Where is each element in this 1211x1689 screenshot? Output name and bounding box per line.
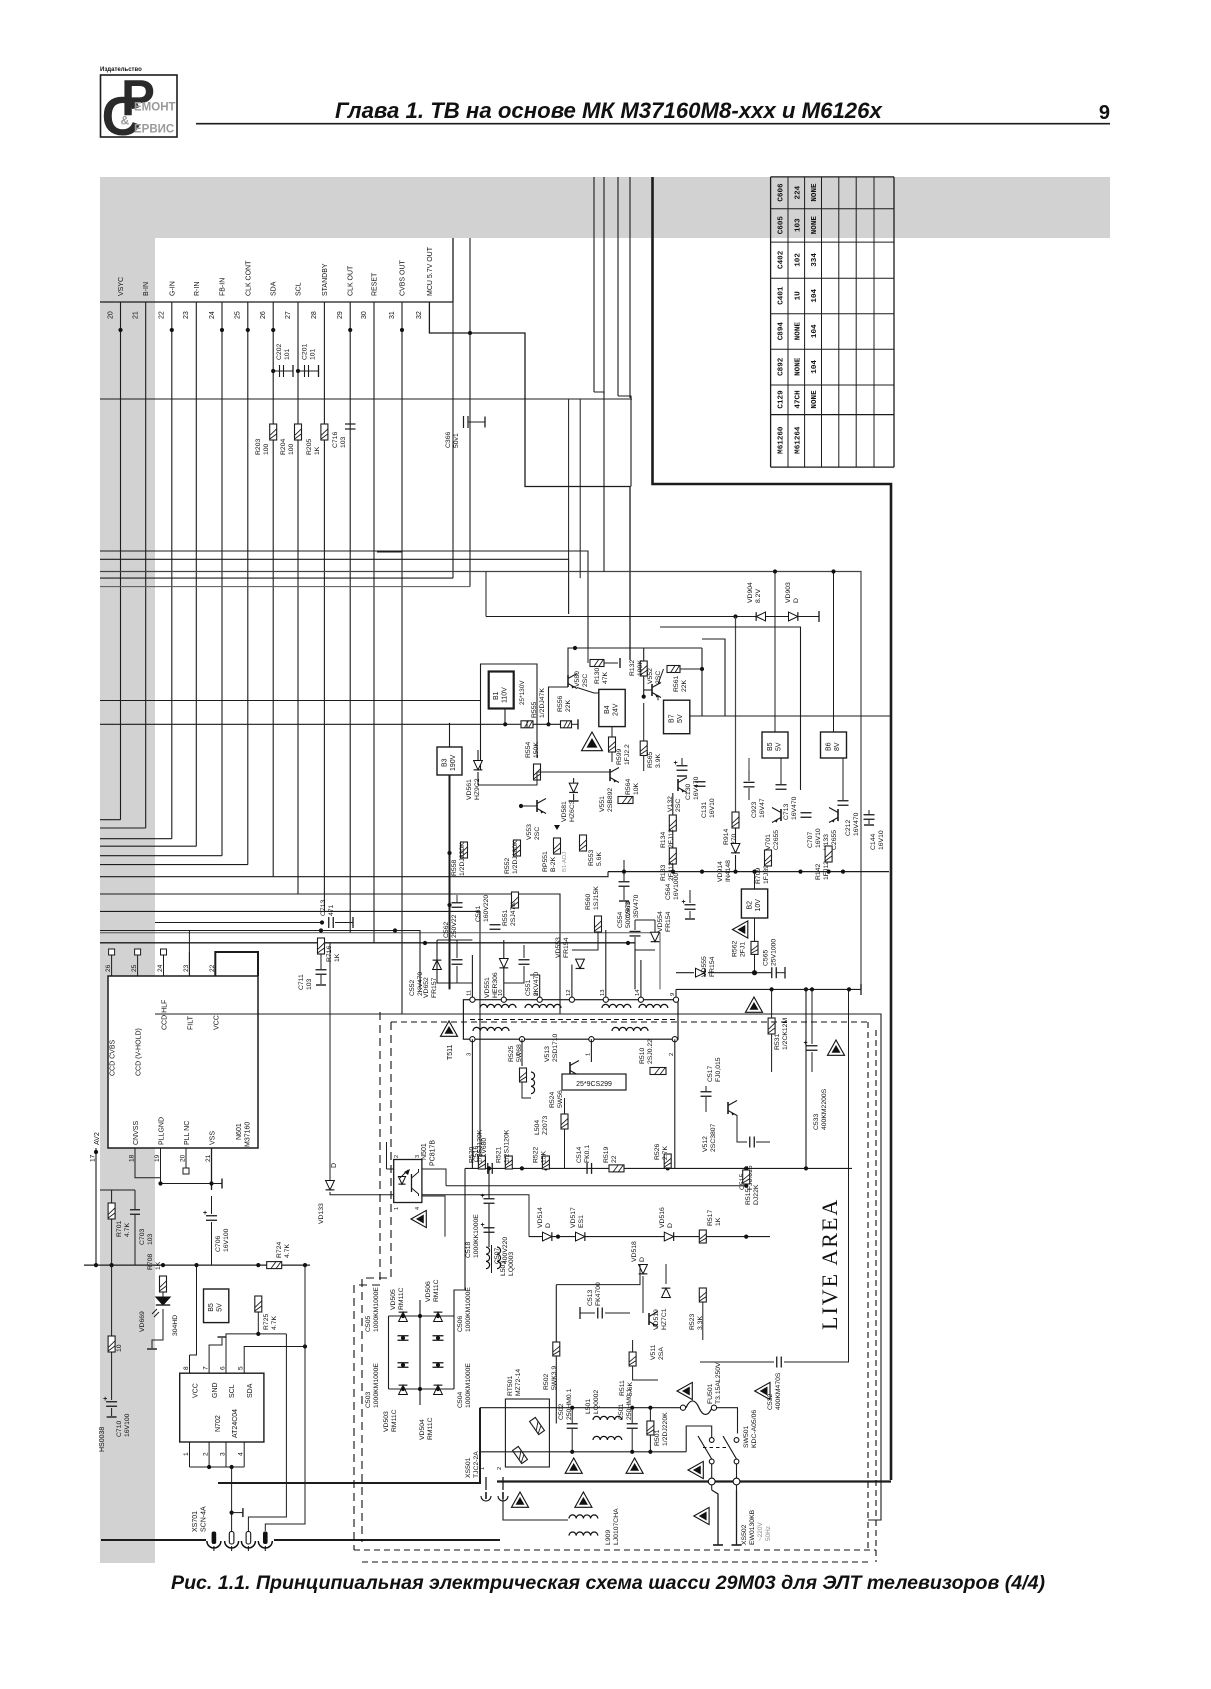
svg-text:PLL NC: PLL NC xyxy=(184,1121,191,1145)
svg-text:10V: 10V xyxy=(755,899,762,912)
wire vertical top bundle 1 xyxy=(593,177,595,392)
wire pin 29 xyxy=(349,302,351,933)
svg-text:R553: R553 xyxy=(588,850,595,866)
capacitor C713 471 xyxy=(328,917,330,928)
resistor R523 xyxy=(699,1288,706,1302)
capacitor C703 xyxy=(130,1209,140,1211)
wire bundle jogs xyxy=(594,392,604,460)
wire pin17 AV2 xyxy=(95,1148,97,1265)
svg-text:IN4148: IN4148 xyxy=(725,860,732,882)
svg-text:B1: B1 xyxy=(493,691,500,700)
svg-text:7: 7 xyxy=(203,1366,210,1370)
svg-text:C2655: C2655 xyxy=(773,830,780,850)
svg-text:V552: V552 xyxy=(647,668,654,684)
warning triangles mains xyxy=(565,1458,582,1473)
wire pin 27 xyxy=(297,302,299,894)
svg-text:R130: R130 xyxy=(594,668,601,684)
svg-text:4.7K: 4.7K xyxy=(284,1244,291,1258)
svg-text:AV2: AV2 xyxy=(94,1132,101,1145)
wire switch left pole feed xyxy=(686,1426,712,1452)
svg-text:VD581: VD581 xyxy=(561,801,568,822)
capacitor C710 xyxy=(106,1401,117,1403)
resistor R565 xyxy=(640,741,647,756)
wire VD904 rail xyxy=(486,616,819,618)
live area dashed boundary right xyxy=(867,1022,869,1550)
wire primary links xyxy=(556,1264,640,1285)
wire pin 21 to left edge xyxy=(100,827,146,829)
resistor R520 xyxy=(478,1156,485,1169)
IC N601 box xyxy=(108,976,258,1148)
svg-text:CLK OUT: CLK OUT xyxy=(348,265,355,296)
capacitor C551 xyxy=(519,959,530,961)
svg-text:18: 18 xyxy=(129,1154,136,1162)
svg-text:2SJ0.22: 2SJ0.22 xyxy=(647,1039,654,1064)
switch SW501 xyxy=(709,1438,714,1443)
transistor V552 xyxy=(651,684,653,696)
diode VD133 xyxy=(326,1181,335,1190)
svg-text:LQ0002: LQ0002 xyxy=(593,1390,600,1414)
wire C532 riser to secondary rail xyxy=(784,989,849,1362)
diode VD518 xyxy=(639,1265,648,1274)
svg-text:R520: R520 xyxy=(469,1147,476,1163)
svg-text:C518: C518 xyxy=(465,1242,472,1258)
svg-text:C565: C565 xyxy=(763,950,770,966)
svg-text:STANDBY: STANDBY xyxy=(322,263,329,296)
resistor R204 xyxy=(295,424,302,440)
svg-text:C504: C504 xyxy=(457,1392,464,1408)
resistor R526 xyxy=(664,1154,671,1168)
svg-text:27: 27 xyxy=(285,311,292,319)
svg-text:NONE: NONE xyxy=(794,357,802,376)
svg-text:R133: R133 xyxy=(660,865,667,881)
svg-text:C713: C713 xyxy=(783,804,790,820)
svg-text:FR154: FR154 xyxy=(665,911,672,932)
svg-text:CLK CONT: CLK CONT xyxy=(245,260,252,296)
svg-text:D: D xyxy=(545,1223,552,1228)
svg-text:R914: R914 xyxy=(723,829,730,845)
svg-text:8V: 8V xyxy=(834,742,841,751)
svg-text:VD133: VD133 xyxy=(318,1203,325,1224)
svg-text:R701: R701 xyxy=(116,1221,123,1237)
wire B6 feed from bus xyxy=(833,572,835,733)
wire N702 bottom gnd xyxy=(190,1466,245,1468)
wire x486 drop xyxy=(485,572,487,617)
wire rail corner down xyxy=(701,648,703,716)
svg-text:RM11C: RM11C xyxy=(427,1417,434,1440)
svg-text:16V100: 16V100 xyxy=(223,1228,230,1252)
resistor R708 xyxy=(160,1276,167,1292)
svg-text:+: + xyxy=(203,1210,207,1217)
wire y922 rail xyxy=(155,922,322,924)
svg-text:2SC: 2SC xyxy=(582,674,589,687)
diode VD516 xyxy=(664,1232,673,1241)
transistor V132 xyxy=(677,779,679,791)
IC region gray column left xyxy=(100,238,155,1563)
svg-text:28: 28 xyxy=(311,311,318,319)
voltage box B1 xyxy=(489,672,514,709)
diode VD551 xyxy=(499,959,508,968)
wire hot rail to bridge xyxy=(454,1168,465,1316)
svg-text:FK4700: FK4700 xyxy=(595,1282,602,1306)
wire vertical top bundle 3 xyxy=(617,177,619,396)
svg-text:R502: R502 xyxy=(543,1374,550,1390)
bottom rail upper cluster xyxy=(608,871,889,873)
svg-text:R725: R725 xyxy=(263,1314,270,1330)
wire pin 28 xyxy=(323,302,325,911)
resistor R515 xyxy=(743,1170,750,1184)
svg-text:2: 2 xyxy=(394,1155,400,1158)
IC N702 box xyxy=(180,1373,264,1442)
svg-text:C505: C505 xyxy=(365,1316,372,1332)
svg-text:2FJ1: 2FJ1 xyxy=(740,942,747,957)
svg-text:R205: R205 xyxy=(306,439,313,455)
wire drop x580 xyxy=(579,399,581,578)
svg-text:T511: T511 xyxy=(447,1044,454,1060)
resistor R724 xyxy=(267,1262,282,1269)
wire primary verticals xyxy=(471,1039,473,1168)
svg-text:SDA: SDA xyxy=(271,281,278,296)
wire bus y700 xyxy=(100,700,481,702)
capacitor C201 xyxy=(298,370,311,372)
wire pin 22 xyxy=(171,302,173,839)
capacitor C212 xyxy=(838,800,849,802)
svg-text:B7: B7 xyxy=(669,714,676,723)
svg-text:C402: C402 xyxy=(777,250,785,269)
svg-text:C129: C129 xyxy=(777,390,785,409)
svg-text:C554: C554 xyxy=(617,912,624,928)
wire y943 rail xyxy=(100,942,635,944)
svg-text:VD517: VD517 xyxy=(570,1207,577,1228)
wire CLK OUT bus horizontal xyxy=(100,933,660,990)
hybrid box 25*9CS299 xyxy=(562,1074,626,1090)
capacitor C514 xyxy=(586,1163,588,1174)
svg-text:V511: V511 xyxy=(650,1344,657,1360)
warning triangle fuse xyxy=(677,1382,692,1399)
svg-text:VD904: VD904 xyxy=(747,582,754,603)
svg-text:20: 20 xyxy=(107,311,114,319)
wire VD133 net xyxy=(329,943,331,1180)
svg-text:RP551: RP551 xyxy=(542,851,549,872)
resistor R558b xyxy=(461,842,468,858)
wire B1 feed riser xyxy=(481,664,538,770)
diode VD504 xyxy=(434,1385,443,1394)
svg-text:2SC: 2SC xyxy=(675,799,682,812)
resistor R556 xyxy=(561,721,572,728)
svg-text:100: 100 xyxy=(288,443,295,455)
resistor R501 xyxy=(647,1421,654,1435)
svg-text:D: D xyxy=(639,1257,646,1262)
svg-text:MCU 5.7V OUT: MCU 5.7V OUT xyxy=(427,246,434,296)
ground R556 xyxy=(572,723,579,725)
voltage box B3 xyxy=(437,747,462,775)
resistor R205 xyxy=(321,424,328,440)
resistor R555 xyxy=(521,721,533,728)
svg-text:C564: C564 xyxy=(665,884,672,900)
voltage box B5 low xyxy=(204,1289,229,1323)
svg-text:50Hz: 50Hz xyxy=(765,1526,772,1541)
svg-text:5V: 5V xyxy=(776,742,783,751)
svg-text:SCN-4A: SCN-4A xyxy=(201,1506,208,1532)
live area thin solid wire xyxy=(155,1013,881,1015)
svg-text:HZ7C1: HZ7C1 xyxy=(661,1308,668,1330)
svg-text:C711: C711 xyxy=(298,974,305,990)
IC region gray band top xyxy=(100,177,1110,238)
svg-text:3: 3 xyxy=(220,1452,227,1456)
svg-text:VD505: VD505 xyxy=(390,1289,397,1310)
diode VD506 xyxy=(434,1312,443,1321)
svg-text:~220V: ~220V xyxy=(757,1522,764,1541)
resistor R511 xyxy=(629,1352,636,1366)
capacitor C502 xyxy=(567,1423,578,1425)
svg-text:VD553: VD553 xyxy=(555,937,562,958)
svg-text:14: 14 xyxy=(635,989,641,996)
svg-text:R521: R521 xyxy=(496,1147,503,1163)
svg-text:C366: C366 xyxy=(445,432,452,448)
svg-text:5V: 5V xyxy=(677,714,684,723)
svg-text:23: 23 xyxy=(183,964,190,972)
resistor R701 xyxy=(108,1203,115,1219)
wire N702 top connections xyxy=(190,1265,197,1355)
svg-text:103: 103 xyxy=(147,1233,154,1245)
capacitor C565 xyxy=(771,967,773,978)
voltage box B7 xyxy=(664,700,690,734)
degauss RT501 xyxy=(505,1399,549,1467)
svg-text:1K: 1K xyxy=(314,446,321,455)
svg-text:HS0038: HS0038 xyxy=(99,1427,106,1452)
svg-text:VD504: VD504 xyxy=(419,1419,426,1440)
capacitor C713 xyxy=(776,784,787,786)
svg-text:VD903: VD903 xyxy=(785,582,792,603)
svg-text:160V220: 160V220 xyxy=(483,895,490,922)
svg-text:N702: N702 xyxy=(215,1415,222,1432)
svg-text:R560: R560 xyxy=(585,894,592,910)
wire B3 thick drop xyxy=(449,775,451,989)
svg-text:C894: C894 xyxy=(777,322,785,341)
wire aux vertical x470 with C366 tap xyxy=(469,238,471,587)
wire pin 30 xyxy=(373,302,375,943)
svg-text:1000KM1000E: 1000KM1000E xyxy=(373,1363,380,1408)
svg-text:8: 8 xyxy=(183,1366,190,1370)
svg-text:8.2V: 8.2V xyxy=(755,589,762,603)
svg-text:VD554: VD554 xyxy=(657,911,664,932)
svg-text:1FJ39: 1FJ39 xyxy=(763,865,770,884)
svg-text:M61260: M61260 xyxy=(777,426,785,454)
svg-text:25*130V: 25*130V xyxy=(519,680,526,705)
svg-text:AT24C04: AT24C04 xyxy=(232,1409,239,1438)
wire V580 collector rail xyxy=(568,648,702,675)
svg-text:N601: N601 xyxy=(236,1123,243,1140)
wire lower rail y1236 xyxy=(529,1236,770,1238)
transistor V701 xyxy=(780,809,782,821)
voltage box B6 xyxy=(821,732,847,758)
svg-text:20: 20 xyxy=(180,1154,187,1162)
svg-text:C533: C533 xyxy=(813,1114,820,1130)
wire pin 24 to left edge xyxy=(100,855,222,857)
svg-text:224: 224 xyxy=(794,185,802,199)
svg-text:16V10: 16V10 xyxy=(709,798,716,818)
svg-text:CVBS OUT: CVBS OUT xyxy=(400,259,407,296)
svg-text:110V: 110V xyxy=(502,687,509,703)
wire drop x568 xyxy=(568,399,570,559)
svg-text:L504: L504 xyxy=(534,1120,541,1135)
svg-text:R132: R132 xyxy=(629,660,636,676)
svg-text:PC817B: PC817B xyxy=(430,1140,437,1166)
svg-text:VD561: VD561 xyxy=(466,779,473,800)
warning triangle R531 xyxy=(745,997,762,1012)
capacitor C554 xyxy=(630,930,641,932)
svg-text:1000KK1000E: 1000KK1000E xyxy=(473,1214,480,1258)
diode VD555 xyxy=(696,968,705,977)
svg-text:G-IN: G-IN xyxy=(169,281,176,296)
live area dashed boundary left xyxy=(354,1012,380,1550)
svg-text:T3.15AL250V: T3.15AL250V xyxy=(715,1362,722,1404)
resistor R564 xyxy=(618,797,633,804)
resistor R132 xyxy=(640,661,647,676)
svg-text:500V470: 500V470 xyxy=(625,901,632,928)
svg-text:V512: V512 xyxy=(702,1136,709,1152)
svg-text:1000KM1000E: 1000KM1000E xyxy=(373,1287,380,1332)
svg-text:2SC: 2SC xyxy=(534,827,541,840)
wire B7 output line xyxy=(690,715,891,717)
resistor R716 xyxy=(318,938,325,954)
wire B3 top feed xyxy=(449,723,451,747)
svg-text:2SB892: 2SB892 xyxy=(607,788,614,812)
resistor R599 xyxy=(609,737,616,752)
resistor R710 xyxy=(108,1336,115,1352)
svg-text:26: 26 xyxy=(105,964,112,972)
IC N601 VCC thick wire xyxy=(215,952,258,976)
svg-text:C562: C562 xyxy=(443,922,450,938)
svg-text:C703: C703 xyxy=(139,1229,146,1245)
svg-text:25V1000: 25V1000 xyxy=(771,939,778,966)
svg-text:Рис. 1.1. Принципиальная элект: Рис. 1.1. Принципиальная электрическая с… xyxy=(171,1572,1045,1594)
svg-text:104: 104 xyxy=(811,360,819,374)
svg-text:RM11C: RM11C xyxy=(391,1409,398,1432)
svg-text:FR154: FR154 xyxy=(563,937,570,958)
svg-text:R562: R562 xyxy=(732,941,739,957)
capacitor C202 xyxy=(273,370,286,372)
warning triangle near R599 xyxy=(582,732,603,751)
wire bus y559 xyxy=(100,559,569,614)
svg-text:2FJ12: 2FJ12 xyxy=(668,829,675,848)
resistor R725 xyxy=(255,1296,262,1312)
svg-text:M61264: M61264 xyxy=(794,426,802,454)
resistor R562 xyxy=(751,941,758,954)
svg-text:29: 29 xyxy=(337,311,344,319)
svg-text:C502: C502 xyxy=(558,1404,565,1420)
svg-text:13: 13 xyxy=(600,990,606,996)
svg-text:12: 12 xyxy=(566,990,572,996)
wire bus y551 xyxy=(100,551,588,648)
svg-text:6: 6 xyxy=(220,1366,227,1370)
voltage box B5 xyxy=(762,732,788,758)
capacitor C552 xyxy=(452,959,463,961)
wire MCU 5.7V OUT net xyxy=(429,302,630,660)
svg-text:101: 101 xyxy=(284,348,291,360)
svg-text:M37160: M37160 xyxy=(245,1122,252,1147)
svg-text:R517: R517 xyxy=(707,1210,714,1226)
svg-text:2SC3807: 2SC3807 xyxy=(710,1123,717,1152)
wire y930 rail xyxy=(100,931,420,990)
wire bridge rails xyxy=(389,1315,455,1317)
svg-text:250V22: 250V22 xyxy=(451,914,458,938)
svg-text:V513: V513 xyxy=(544,1046,551,1062)
svg-text:1: 1 xyxy=(394,1207,400,1210)
svg-text:+: + xyxy=(103,1396,107,1403)
wire SDA bus horizontal xyxy=(100,872,608,877)
transformer T511 bottom windings xyxy=(473,1027,509,1031)
wire B5 feed from bus xyxy=(774,572,776,733)
svg-text:+: + xyxy=(682,899,686,906)
resistor R914 xyxy=(732,812,739,828)
wire switch bus y1168 xyxy=(465,1167,852,1169)
svg-text:2KV470: 2KV470 xyxy=(417,972,424,996)
svg-text:C144: C144 xyxy=(870,834,877,850)
wire right drop x604 xyxy=(603,460,605,572)
XS701 pins xyxy=(213,1546,215,1551)
svg-text:C561: C561 xyxy=(475,906,482,922)
svg-text:VD669: VD669 xyxy=(139,1311,146,1332)
resistor R553 xyxy=(580,835,587,851)
svg-text:C706: C706 xyxy=(215,1236,222,1252)
svg-text:100: 100 xyxy=(263,443,270,455)
svg-text:1SJ15K: 1SJ15K xyxy=(593,886,600,910)
svg-text:+: + xyxy=(481,1193,485,1200)
svg-text:3: 3 xyxy=(466,1053,472,1056)
svg-text:400KM2200S: 400KM2200S xyxy=(821,1088,828,1130)
svg-text:C551: C551 xyxy=(525,980,532,996)
svg-text:103: 103 xyxy=(794,218,802,232)
svg-text:16V10: 16V10 xyxy=(878,830,885,850)
svg-text:4.7K: 4.7K xyxy=(124,1223,131,1237)
resistor R519 xyxy=(609,1165,624,1172)
capacitor C131 xyxy=(695,781,706,783)
svg-text:R709: R709 xyxy=(755,868,762,884)
svg-text:2SA: 2SA xyxy=(658,1347,665,1360)
wire bus y578 xyxy=(100,577,453,579)
zener VD581 xyxy=(569,783,578,792)
svg-text:LJ0107CHA: LJ0107CHA xyxy=(613,1508,620,1545)
svg-text:23: 23 xyxy=(183,311,190,319)
svg-text:R510: R510 xyxy=(639,1048,646,1064)
svg-text:22: 22 xyxy=(159,311,166,319)
wire pin18 19 21 gnd rail xyxy=(135,1148,161,1178)
wire y639 jog xyxy=(702,639,725,716)
svg-text:B1-ADJ: B1-ADJ xyxy=(562,852,568,872)
svg-text:R556: R556 xyxy=(557,696,564,712)
svg-text:N501: N501 xyxy=(421,1143,428,1160)
transformer T511 body xyxy=(463,1000,678,1039)
wire R555 to R556 xyxy=(533,723,561,725)
svg-text:V551: V551 xyxy=(599,796,606,812)
svg-text:CCD (V-HOLD): CCD (V-HOLD) xyxy=(136,1028,143,1076)
svg-text:8: 8 xyxy=(534,993,540,996)
svg-text:B-2K: B-2K xyxy=(550,856,557,872)
svg-text:1/2DJ100K: 1/2DJ100K xyxy=(512,840,519,874)
svg-text:LIVE AREA: LIVE AREA xyxy=(817,1198,842,1330)
svg-text:B4: B4 xyxy=(604,705,611,714)
svg-text:103: 103 xyxy=(306,978,313,990)
svg-text:R558: R558 xyxy=(451,860,458,876)
svg-text:31: 31 xyxy=(389,311,396,319)
svg-text:RM11C: RM11C xyxy=(398,1287,405,1310)
capacitor C706 xyxy=(206,1215,217,1217)
wire V580 base xyxy=(549,687,569,724)
svg-text:C605: C605 xyxy=(777,216,785,235)
svg-text:SW501: SW501 xyxy=(743,1425,750,1448)
svg-text:22: 22 xyxy=(611,1155,618,1163)
svg-text:R204: R204 xyxy=(280,439,287,455)
